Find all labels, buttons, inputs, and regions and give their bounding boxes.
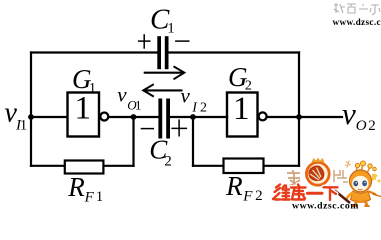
node vI1 junction dot [28, 114, 34, 120]
mascot right arm rod [368, 192, 376, 196]
badge fist [308, 165, 324, 181]
red char yi [308, 192, 323, 195]
red weiku chars white casing [273, 185, 338, 201]
watermark top-right grey dzsc text [333, 3, 381, 27]
wire top horizontal left of C1 [31, 51, 157, 53]
mascot left arm with stick [347, 193, 354, 200]
badge crown top [312, 158, 325, 163]
resistor RF2 box [224, 159, 264, 174]
red char wei [273, 185, 290, 200]
stick [329, 186, 351, 204]
mascot crown prongs [356, 165, 370, 174]
capacitor C2 plates [158, 99, 162, 139]
wire vI2 vertical down to RF2 [192, 117, 194, 166]
node vO1 junction dot [131, 114, 137, 120]
arrow right below C1 [144, 66, 185, 79]
wire bottom left to RF1 [31, 165, 65, 167]
inverter G1 box [68, 93, 100, 137]
yellow splash right of head [372, 174, 378, 182]
mascot legs [355, 200, 367, 206]
wire top horizontal right of C1 [168, 51, 299, 53]
capacitor C1 minus sign [175, 40, 189, 42]
wire left vertical (node vI1) [30, 53, 32, 166]
node vO2 junction dot [296, 114, 302, 120]
node vI2 junction dot [190, 114, 196, 120]
inverter G1 output bubble [100, 113, 108, 121]
wire vI2 vertical to RF2 [193, 165, 224, 167]
badge circle [306, 162, 329, 185]
wire G1 output to C2 left [108, 116, 158, 118]
wire C2 right to G2 input [170, 116, 227, 118]
capacitor C2 plus sign [171, 119, 187, 136]
mascot sparkle [345, 161, 351, 168]
resistor RF1 box [65, 161, 104, 174]
wire right vertical (node vO2) [298, 53, 300, 166]
wire vI1 to G1 input [31, 116, 67, 118]
capacitor C1 plates [157, 36, 161, 69]
red char xia [324, 187, 338, 200]
capacitor C1 plus sign [138, 34, 151, 49]
arrow left above C2 [143, 84, 182, 96]
faint char pian [334, 170, 348, 182]
wire vO1 vertical down to RF1 [132, 117, 134, 166]
faint char wo (find) [287, 170, 300, 186]
capacitor C2 minus sign [141, 128, 154, 130]
red char ku [291, 185, 306, 200]
wire G2 output to vO2 [267, 116, 342, 118]
mascot body [351, 191, 371, 202]
mascot head [350, 170, 372, 192]
wire RF1 to vO1 vertical [103, 165, 133, 167]
inverter G2 output bubble [259, 112, 267, 120]
svg-text:www.dzsc.com: www.dzsc.com [292, 201, 359, 212]
inverter G2 box [227, 93, 258, 137]
wire RF2 to right vertical [264, 165, 300, 167]
